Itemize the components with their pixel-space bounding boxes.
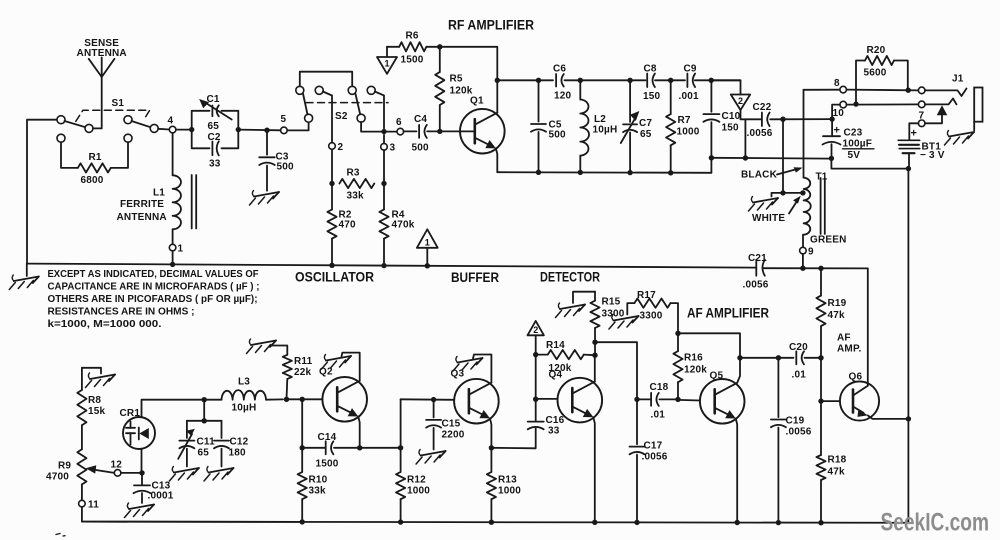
node 5 terminal: [281, 127, 288, 134]
svg-text:5: 5: [281, 114, 287, 125]
svg-text:CR1: CR1: [120, 408, 141, 419]
wire node5 to S2 pole A: [287, 122, 308, 131]
svg-text:100µF: 100µF: [843, 139, 873, 150]
switch S2 contact upA1: [296, 86, 304, 94]
jack J1 sleeve to ground: [973, 122, 975, 131]
wire riser to C22: [744, 119, 746, 158]
junction dot C22 to black riser: [780, 117, 785, 122]
wire Q1 collector: [496, 80, 498, 113]
switch S1 contact B2: [150, 124, 158, 132]
wire node3 stub: [383, 135, 385, 144]
capacitor C2 on box bottom: [192, 130, 210, 149]
svg-text:33k: 33k: [309, 486, 327, 497]
ground below C12: [209, 468, 234, 473]
svg-text:1: 1: [384, 59, 389, 69]
wire left feed to S1: [27, 120, 57, 264]
transistor Q6: [840, 381, 879, 420]
svg-text:47k: 47k: [828, 467, 846, 478]
junction dot R3 right: [381, 181, 386, 186]
svg-text:R17: R17: [637, 290, 656, 301]
svg-text:22k: 22k: [294, 367, 312, 378]
svg-text:C6: C6: [553, 64, 566, 75]
terminal 10: [840, 101, 847, 108]
junction dot white: [780, 190, 785, 195]
scan speck: [56, 534, 60, 535]
capacitor C21: [755, 260, 757, 276]
switch S1 arm A1-A2: [65, 121, 86, 127]
svg-text:C19: C19: [786, 416, 805, 427]
resistor R19: [820, 268, 822, 295]
wire C22 junction down to white: [782, 119, 784, 193]
svg-text:R3: R3: [347, 168, 360, 179]
junction dot R20 right: [906, 88, 911, 93]
svg-text:R11: R11: [294, 356, 313, 367]
power triangle 2 (detector): [528, 321, 544, 335]
resistor R17: [627, 303, 634, 314]
white/black line: [711, 157, 831, 160]
svg-text:10µH: 10µH: [593, 125, 618, 136]
ground at R15: [560, 305, 585, 310]
svg-text:120k: 120k: [684, 365, 707, 376]
junction dot R13 top: [489, 445, 494, 450]
svg-text:R18: R18: [828, 455, 847, 466]
transistor Q5: [700, 379, 745, 424]
wire buffer base line: [401, 398, 455, 401]
junction dot C14 left: [300, 445, 305, 450]
terminal 2: [329, 143, 336, 150]
junction dot C20 right: [818, 355, 823, 360]
wire R10/C14 branch: [301, 399, 303, 448]
resistor R16: [677, 333, 679, 351]
svg-text:L2: L2: [594, 114, 606, 125]
svg-text:BLACK: BLACK: [741, 170, 778, 181]
wire T1 to terminal 9: [802, 235, 804, 248]
junction dot R13 rail: [489, 520, 494, 525]
resistor R15: [573, 292, 595, 303]
svg-text:Q5: Q5: [710, 371, 724, 382]
svg-text:AF AMPLIFIER: AF AMPLIFIER: [687, 306, 769, 321]
inductor L3: [204, 399, 221, 401]
switch S1 contact A3: [57, 134, 65, 142]
switch S2 arm A: [303, 94, 308, 115]
svg-text:15k: 15k: [88, 406, 106, 417]
terminal 8: [840, 86, 847, 93]
junction dot C19 rail: [776, 520, 781, 525]
svg-text:R9: R9: [58, 461, 71, 472]
capacitor C23 (electrolytic): [831, 119, 833, 135]
svg-text:500: 500: [412, 143, 430, 154]
ground above R8: [90, 375, 115, 380]
svg-text:DETECTOR: DETECTOR: [540, 270, 600, 285]
capacitor C22: [741, 118, 762, 120]
svg-text:2: 2: [738, 96, 743, 106]
capacitor C3: [266, 130, 268, 155]
svg-text:.0056: .0056: [642, 452, 668, 463]
transistor Q2: [322, 377, 367, 422]
wire CR1 top: [142, 400, 205, 418]
R9 wiper arrow: [95, 470, 114, 473]
junction dot C15 top: [431, 397, 436, 402]
junction dot L3 left: [202, 397, 207, 402]
sense antenna symbol: [101, 77, 103, 128]
RF tank top rail: [497, 79, 553, 81]
svg-text:.01: .01: [792, 370, 807, 381]
wire Q4 emitter: [593, 417, 594, 522]
svg-text:47k: 47k: [828, 310, 846, 321]
svg-text:S1: S1: [112, 98, 125, 109]
capacitor C19: [777, 358, 779, 417]
ground above Q3: [458, 358, 483, 363]
junction dot rail L1: [170, 262, 175, 267]
wire Q2 emitter: [358, 417, 359, 448]
junction dot Q6 base: [818, 398, 823, 403]
jack J1 ring contact: [925, 89, 967, 97]
C20 line: [740, 357, 794, 359]
svg-text:R13: R13: [498, 475, 517, 486]
junction dot rail triangle1: [425, 263, 430, 268]
wire S2 upA2 to node 2 line: [323, 92, 332, 143]
wire R19 R18 mid: [820, 358, 822, 401]
svg-text:7: 7: [919, 111, 925, 122]
junction dot R12 rail: [398, 519, 403, 524]
potentiometer R9: [77, 449, 86, 484]
svg-text:R10: R10: [309, 475, 328, 486]
wire triangle2 to base: [535, 355, 537, 400]
junction dots C5: [536, 78, 541, 83]
wire S1-B2 to node 4: [158, 128, 169, 131]
svg-text:C20: C20: [789, 342, 808, 353]
wire term10 to jack: [847, 103, 919, 105]
switch S2 mechanical link (dashed): [306, 102, 388, 104]
svg-text:150: 150: [643, 91, 661, 102]
svg-text:Q4: Q4: [549, 370, 563, 381]
svg-text:12: 12: [111, 460, 123, 471]
junction dots L2: [578, 78, 583, 83]
svg-text:5V: 5V: [848, 150, 861, 161]
junction dot R16 top: [675, 331, 680, 336]
junction dot C23 top: [829, 116, 834, 121]
svg-text:OTHERS ARE IN PICOFARADS ( pF: OTHERS ARE IN PICOFARADS ( pF OR µµF);: [48, 294, 258, 305]
svg-text:.0056: .0056: [747, 128, 773, 139]
svg-text:500: 500: [549, 130, 567, 141]
svg-text:180: 180: [229, 448, 247, 459]
wire box to node 5: [238, 129, 280, 132]
capacitor C15: [433, 400, 435, 418]
resistor R20: [856, 61, 865, 105]
capacitor C1 (variable) with box frame: [192, 111, 210, 130]
ground below C13: [129, 505, 154, 510]
wire L1 to mid rail: [172, 251, 174, 264]
svg-text:2200: 2200: [442, 430, 465, 441]
capacitor C4: [404, 130, 417, 132]
terminal 1 of L1: [169, 244, 176, 251]
svg-text:C17: C17: [644, 441, 663, 452]
bottom rail: [82, 522, 909, 523]
wire Q5 emitter: [736, 419, 737, 523]
switch S2 contact upB2: [367, 86, 375, 94]
svg-text:150: 150: [722, 123, 740, 134]
wire Q3 collector to ground: [473, 355, 491, 383]
svg-text:R12: R12: [407, 475, 426, 486]
capacitor C17: [636, 399, 638, 444]
oscillator base line: [287, 398, 323, 400]
wire CR1 bottom: [141, 449, 143, 473]
mid rail left segment: [27, 264, 756, 268]
wire Q5 collector: [678, 333, 740, 383]
capacitor C8: [646, 74, 648, 88]
node 4 terminal: [169, 126, 176, 133]
power triangle 2 (top): [711, 80, 740, 94]
svg-text:AF: AF: [837, 333, 851, 344]
svg-text:C1: C1: [207, 94, 220, 105]
junction dot R15 bottom: [592, 340, 597, 345]
svg-text:C7: C7: [639, 118, 652, 129]
jack J1 tip arrow: [937, 105, 948, 115]
junction dot below CR1: [139, 470, 144, 475]
svg-text:6800: 6800: [81, 175, 104, 186]
wire Q6 base: [821, 400, 840, 402]
wire Q1 emitter: [496, 148, 497, 172]
junction dot rail terminal9: [800, 266, 805, 271]
svg-text:4700: 4700: [46, 472, 69, 483]
junction dot C17 rail: [634, 520, 639, 525]
capacitor C11 (variable): [186, 421, 188, 438]
wire S2 upB2 to node 3 line: [375, 92, 384, 129]
svg-text:− 3 V: − 3 V: [920, 150, 945, 161]
junction dot C11 C12: [202, 418, 207, 423]
capacitor C10: [710, 80, 712, 111]
capacitor C16: [528, 421, 544, 423]
svg-text:C22: C22: [753, 102, 772, 113]
switch S2 arm B: [355, 94, 360, 115]
svg-text:ANTENNA: ANTENNA: [77, 48, 127, 59]
svg-text:RESISTANCES ARE IN OHMS ;: RESISTANCES ARE IN OHMS ;: [48, 307, 195, 318]
switch S1 contact B1: [124, 116, 132, 124]
black wire riser (terminal 8 to T1): [803, 90, 805, 178]
jack J1 contact circles: [918, 87, 925, 94]
jack J1 plug body: [974, 88, 982, 122]
junction dot rail R2: [329, 263, 334, 268]
svg-text:65: 65: [640, 129, 652, 140]
capacitor C12: [221, 421, 223, 438]
switch S2 contact loB: [357, 114, 365, 122]
resistor R13: [490, 448, 492, 472]
junction dot C10 top: [709, 78, 714, 83]
junction dots C7: [627, 78, 632, 83]
terminal 3: [381, 144, 388, 151]
svg-text:C11: C11: [197, 437, 216, 448]
svg-text:9: 9: [808, 247, 814, 258]
wire C11 C12 tops: [187, 420, 222, 422]
svg-text:10: 10: [833, 108, 845, 119]
junction dot R10 rail: [300, 519, 305, 524]
wire R9 to bottom rail: [82, 507, 302, 522]
terminal 9: [800, 247, 807, 254]
svg-text:FERRITE: FERRITE: [120, 199, 164, 210]
svg-text:.0001: .0001: [148, 491, 174, 502]
svg-text:Q6: Q6: [849, 372, 863, 383]
resistor R7: [670, 80, 672, 114]
junction dot C18 left: [634, 397, 639, 402]
inductor L2: [579, 80, 581, 99]
wire S1-A2 to antenna: [93, 127, 102, 129]
junction dot Q5 base: [675, 397, 680, 402]
junction dot C20 left: [737, 355, 742, 360]
svg-text:11: 11: [88, 500, 99, 511]
resistor R18: [820, 401, 822, 455]
wire terminal 9 to mid rail: [802, 254, 804, 268]
svg-text:5600: 5600: [864, 68, 887, 79]
svg-text:C15: C15: [442, 419, 461, 430]
wire white to ground: [772, 193, 784, 197]
junction dot white line left: [709, 155, 714, 160]
svg-text:1: 1: [178, 244, 184, 255]
resistor R11: [286, 379, 289, 399]
svg-text:SeekIC.com: SeekIC.com: [881, 509, 990, 537]
svg-text:.01: .01: [651, 410, 666, 421]
wire R15 junction down: [594, 342, 596, 355]
svg-text:470: 470: [339, 220, 357, 231]
capacitor C18: [637, 398, 651, 400]
battery feed riser: [907, 169, 909, 419]
transistor Q1: [460, 109, 505, 154]
switch S2 top bracket: [300, 72, 352, 87]
svg-text:EXCEPT AS INDICATED, DECIMAL V: EXCEPT AS INDICATED, DECIMAL VALUES OF: [48, 269, 259, 280]
terminal 6: [397, 128, 404, 135]
svg-text:C21: C21: [748, 253, 767, 264]
wire R12 riser: [400, 399, 402, 448]
switch S1 contact A2: [85, 124, 93, 132]
junction dot R12 C14: [398, 445, 403, 450]
junction dot box right: [236, 127, 241, 132]
wire node2 to R3 junction: [331, 149, 333, 183]
svg-text:1000: 1000: [407, 486, 430, 497]
mid rail right segment: [763, 267, 868, 269]
svg-text:WHITE: WHITE: [752, 213, 785, 224]
svg-text:C2: C2: [208, 132, 221, 143]
capacitor C5: [538, 80, 540, 121]
svg-text:C16: C16: [546, 415, 565, 426]
ground below C11: [174, 468, 199, 473]
svg-text:1500: 1500: [316, 459, 339, 470]
resistor R10: [301, 448, 303, 472]
resistor R14: [536, 354, 548, 356]
svg-text:OSCILLATOR: OSCILLATOR: [295, 270, 374, 285]
ground above Q2: [326, 356, 351, 361]
wire R6 to Q1 collector: [440, 47, 498, 81]
junction dots R7: [668, 78, 673, 83]
svg-text:R1: R1: [89, 152, 102, 163]
transformer T1 core: [820, 178, 822, 234]
svg-text:Q1: Q1: [470, 96, 484, 107]
wire down to C11/C12: [203, 400, 205, 421]
svg-text:S2: S2: [335, 111, 348, 122]
svg-text:+: +: [911, 128, 918, 140]
ground at white lead: [753, 198, 778, 203]
wire Q2 collector to ground: [342, 353, 360, 381]
junction dot C23 bottom: [829, 156, 834, 161]
svg-text:C9: C9: [684, 64, 697, 75]
svg-text:6: 6: [396, 117, 402, 128]
transistor Q4: [558, 378, 603, 423]
svg-text:T1: T1: [816, 172, 828, 183]
wire Q4 base: [536, 398, 558, 400]
svg-text:470k: 470k: [392, 220, 415, 231]
junction dot Q5 emitter rail: [735, 520, 740, 525]
svg-text:L1: L1: [153, 188, 165, 199]
wire term10 left leg: [832, 105, 840, 120]
switch S1 arm B1-B2: [132, 121, 151, 127]
ground below C3: [254, 192, 279, 197]
ground below C15: [421, 451, 446, 456]
wire R13 to C16: [491, 429, 535, 449]
resistor R1: [61, 142, 78, 168]
svg-text:8: 8: [834, 78, 840, 89]
junction dot rail R4: [381, 263, 386, 268]
switch S1 mechanical link (dashed): [76, 110, 150, 121]
svg-text:3: 3: [390, 143, 396, 154]
svg-text:R19: R19: [828, 298, 847, 309]
wire Q6 collector to mid rail: [867, 268, 869, 385]
junction dot R5 base: [437, 129, 442, 134]
battery BT1: [898, 139, 920, 141]
svg-text:R20: R20: [867, 45, 886, 56]
svg-text:1: 1: [425, 237, 430, 247]
junction dot battery minus: [906, 166, 911, 171]
junction dot R14 left: [533, 352, 538, 357]
capacitor C7 (variable): [629, 80, 631, 122]
svg-text:C14: C14: [318, 432, 337, 443]
svg-text:1000: 1000: [677, 127, 700, 138]
terminal 11: [79, 500, 86, 507]
svg-text:R5: R5: [450, 74, 463, 85]
transistor Q3: [454, 379, 499, 424]
svg-text:C23: C23: [844, 128, 863, 139]
junction dot R18 rail: [818, 520, 823, 525]
capacitor C6: [555, 74, 557, 87]
wire Q4 collector: [594, 355, 596, 381]
capacitor C9: [686, 74, 688, 88]
svg-text:33: 33: [548, 426, 560, 437]
ground above R11: [251, 341, 276, 346]
junction dot R20 left: [853, 101, 858, 106]
wire terminal 7 to battery: [909, 123, 918, 139]
svg-text:R14: R14: [546, 340, 565, 351]
svg-text:33: 33: [209, 159, 221, 170]
svg-text:1500: 1500: [401, 55, 424, 66]
wire Q5 base: [678, 399, 700, 402]
svg-text:R6: R6: [406, 31, 419, 42]
transformer T1 winding: [804, 178, 811, 235]
junction dot R11 bottom: [284, 397, 289, 402]
junction dot rail R19: [818, 266, 823, 271]
ground at R17: [614, 316, 639, 321]
switch S2 contact loA: [305, 114, 313, 122]
resistor R12: [400, 448, 402, 472]
varactor diode CR1: [123, 417, 155, 449]
svg-text:R16: R16: [684, 353, 703, 364]
svg-text:C10: C10: [722, 111, 741, 122]
svg-text:.0056: .0056: [786, 427, 812, 438]
power triangle 1 (to R6): [377, 57, 397, 74]
svg-text:.0056: .0056: [743, 280, 769, 291]
jack J1 second contact: [925, 99, 957, 105]
wire node3 to R3 junction: [383, 150, 385, 183]
svg-text:65: 65: [208, 121, 220, 132]
wire S2 loB to node 6 line: [361, 122, 397, 132]
resistor R2: [331, 184, 333, 210]
junction dot C22 riser: [743, 155, 748, 160]
